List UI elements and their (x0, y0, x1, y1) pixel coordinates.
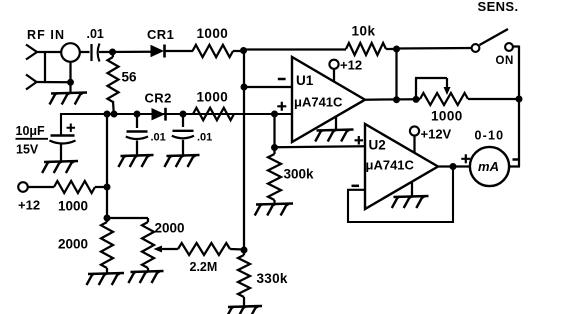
ground under R8 (87, 273, 125, 285)
label R1 1000 (197, 26, 229, 41)
label U1 part (294, 95, 343, 110)
wire cap10uF corner (61, 114, 292, 135)
capacitor C3 .01 (126, 114, 148, 155)
capacitor C2 10uF plus (67, 124, 76, 133)
label meter plus (461, 154, 470, 163)
label C3 .01 (151, 132, 166, 144)
svg-text:2000: 2000 (155, 221, 185, 236)
label SENS. (478, 0, 519, 14)
wire to U2 noninverting (275, 146, 366, 147)
wire R1 to node A (233, 50, 244, 52)
label U1 (296, 73, 314, 88)
svg-text:ON: ON (496, 55, 514, 67)
label R5 1000 (197, 90, 229, 105)
op-amp U2 body (365, 124, 438, 209)
svg-text:10μF: 10μF (16, 124, 46, 138)
resistor R10 2.2M (178, 243, 230, 255)
node 56-top (109, 49, 116, 56)
label RF IN (27, 28, 65, 42)
node 2000 junction (104, 215, 111, 222)
label U1 plus (277, 102, 286, 111)
label CR2 (145, 91, 172, 106)
node U1 output (393, 96, 400, 103)
svg-text:μA741C: μA741C (294, 95, 343, 110)
label R4 56 (122, 70, 138, 85)
label R3 1000 (431, 109, 463, 124)
terminal +12 supply (18, 182, 28, 192)
label 15V (16, 143, 39, 157)
label U2 minus (352, 185, 360, 188)
label U2 plus (355, 136, 364, 145)
node 300k top (271, 144, 278, 151)
svg-text:.01: .01 (197, 132, 212, 144)
resistor R8 2000 (101, 218, 113, 273)
switch S1 throw (505, 43, 513, 51)
U2 ground stem (411, 182, 413, 196)
label C1 .01 (87, 27, 104, 41)
svg-text:1000: 1000 (431, 109, 463, 124)
antenna upper lead (26, 45, 37, 60)
wire jack to C1 (80, 51, 90, 53)
wire antenna link (36, 52, 71, 82)
svg-text:1000: 1000 (58, 199, 88, 214)
label U1 minus (278, 78, 286, 81)
U1 ground stem (335, 116, 337, 130)
wire node B to U1 output (395, 49, 397, 100)
label +12 supply (18, 198, 40, 213)
wire down to U2 row (273, 114, 275, 148)
wire switch down to meter (510, 46, 521, 167)
wire U1 output (365, 98, 420, 101)
ground under 330k (226, 306, 262, 314)
node A junction (240, 47, 247, 54)
wire U2 output to meter (438, 165, 470, 167)
ground U1 (315, 130, 353, 142)
svg-text:+12: +12 (340, 58, 362, 73)
resistor R5 1000 (193, 108, 234, 120)
label CR1 (147, 27, 174, 42)
resistor R6 300k (268, 148, 281, 204)
node C junction (516, 96, 523, 103)
resistor R1 1000 (193, 45, 234, 57)
svg-text:.01: .01 (151, 132, 166, 144)
label U2 (369, 138, 386, 153)
wire node B to switch (397, 47, 472, 50)
capacitor C2 10uF (50, 136, 76, 162)
wire jack stem (69, 62, 71, 93)
svg-text:330k: 330k (257, 271, 288, 286)
node R7 junction (104, 184, 111, 191)
node C4 top (180, 111, 187, 118)
wire to pot R9 (107, 218, 148, 222)
svg-text:2.2M: 2.2M (190, 260, 218, 274)
resistor R7 1000 (54, 181, 95, 193)
node U2 output (450, 163, 457, 170)
wire 10k to node B (386, 48, 397, 50)
svg-text:.01: .01 (87, 27, 104, 41)
capacitor C1 .01 (92, 44, 100, 62)
wire 2.2M to column (230, 248, 244, 251)
svg-text:1000: 1000 (197, 26, 229, 41)
switch S1 lever (480, 29, 509, 45)
node 56 bottom (111, 111, 118, 118)
label meter mA (478, 159, 499, 174)
ground under R9 (128, 271, 163, 283)
svg-text:U1: U1 (296, 73, 314, 88)
svg-text:15V: 15V (16, 143, 39, 157)
label U2 part (366, 158, 415, 173)
wire pot to node C (468, 98, 519, 100)
node B junction (393, 46, 400, 53)
label R6 300k (284, 167, 315, 182)
node 2.2M junction (241, 247, 248, 254)
node U1 noninverting (271, 111, 278, 118)
svg-text:300k: 300k (284, 167, 315, 182)
U1 power terminal +12 (329, 60, 338, 82)
wire CR1 to R1 (165, 50, 194, 52)
diode CR2 (152, 108, 166, 121)
svg-text:+12: +12 (18, 198, 40, 213)
ground U2 (392, 196, 429, 208)
pot R3 wiper (415, 78, 451, 99)
svg-text:mA: mA (478, 159, 499, 174)
U2 power terminal +12V (410, 126, 419, 153)
ground under jack (50, 93, 88, 105)
svg-text:56: 56 (122, 70, 138, 85)
node left column top (104, 111, 111, 118)
switch S1 pole (472, 44, 480, 52)
node jack ground (67, 79, 74, 86)
svg-text:2000: 2000 (58, 237, 88, 252)
label R8 2000 (58, 237, 88, 252)
resistor R11 330k (238, 255, 250, 306)
U2 feedback loop (348, 167, 453, 223)
wire left column (106, 114, 108, 218)
wire antenna to jack (36, 51, 61, 53)
svg-text:SENS.: SENS. (478, 0, 519, 14)
svg-text:RF IN: RF IN (27, 28, 65, 42)
node C3 top (134, 111, 141, 118)
wire C1 to node (99, 51, 151, 54)
label R7 1000 (58, 199, 88, 214)
label U2 +12V (421, 127, 452, 142)
svg-text:μA741C: μA741C (366, 158, 415, 173)
wire to U1 inverting input (244, 86, 292, 88)
label R11 330k (257, 271, 288, 286)
ground under C4 (164, 155, 199, 167)
svg-text:CR2: CR2 (145, 91, 172, 106)
op-amp U1 body (292, 57, 365, 142)
svg-text:10k: 10k (352, 24, 376, 39)
pot R3 1000 body (420, 93, 468, 105)
resistor R2 10k (346, 43, 386, 55)
input jack J1 (61, 43, 80, 62)
label R2 10k (352, 24, 376, 39)
label U1 +12 (340, 58, 362, 73)
label 10uF (16, 124, 49, 139)
capacitor C4 .01 (172, 114, 194, 155)
antenna lower lead (26, 75, 37, 90)
label C4 .01 (197, 132, 212, 144)
label ON (496, 55, 514, 67)
wire node A to 10k (244, 48, 347, 50)
wire +12 to R7 (28, 186, 54, 188)
diode CR1 (151, 45, 165, 58)
label R9 2000 (155, 221, 185, 236)
svg-text:0-10: 0-10 (475, 129, 505, 143)
label meter minus (513, 158, 521, 161)
pot R9 wiper arrow (154, 246, 179, 253)
svg-text:+12V: +12V (421, 127, 452, 142)
resistor R4 56 (108, 52, 119, 114)
ground under 300k (255, 204, 293, 216)
ground under C2 (42, 161, 78, 173)
wire node A down (243, 50, 245, 255)
svg-text:U2: U2 (369, 138, 386, 153)
pot R9 2000 body (142, 222, 154, 271)
label meter 0-10 (475, 129, 505, 143)
svg-text:CR1: CR1 (147, 27, 174, 42)
label R10 2.2M (190, 260, 218, 274)
ground under C3 (118, 155, 153, 167)
meter M1 0-10 mA (470, 147, 509, 186)
node pot left (413, 96, 420, 103)
wire R7 to column (95, 186, 107, 188)
svg-text:1000: 1000 (197, 90, 229, 105)
node U1 inverting (241, 84, 248, 91)
